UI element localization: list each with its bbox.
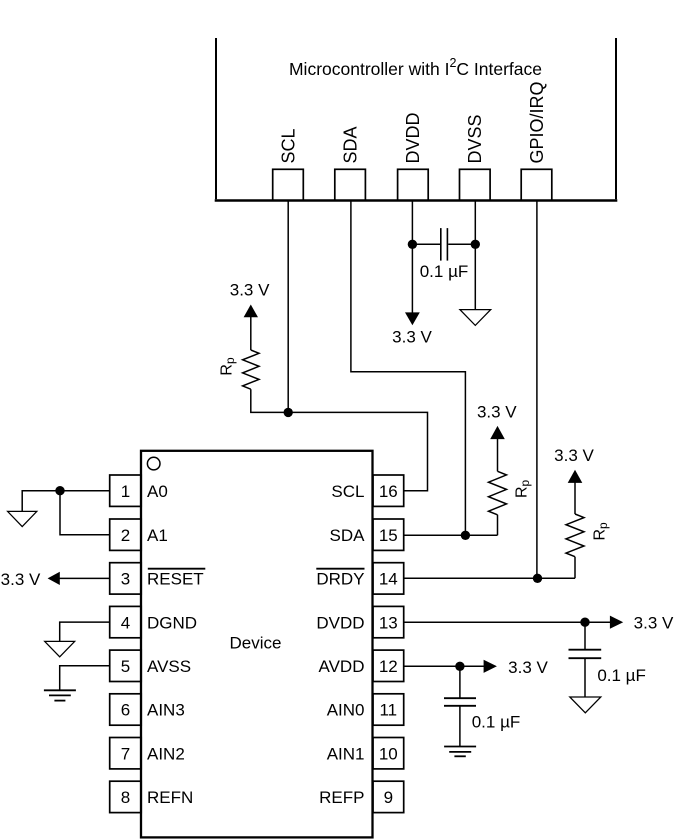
pin box 13 (device) (373, 606, 404, 637)
svg-text:3.3 V: 3.3 V (554, 446, 594, 465)
overline RESET (148, 568, 206, 570)
power arrow 3.3V (DRDY pull-up) (568, 470, 583, 483)
device pin-1 indicator circle (147, 457, 160, 470)
resistor R_p (DRDY pull-up) (566, 482, 584, 556)
resistor R_p (SDA pull-up) (489, 439, 507, 515)
pin box 14 (device) (373, 563, 404, 594)
power arrow 3.3V (DVDD pin13, right) (610, 616, 623, 629)
wire AVDD pin12 to capacitor C3 (459, 666, 461, 697)
pin box 10 (device) (373, 738, 404, 769)
svg-text:AVDD: AVDD (319, 657, 365, 676)
power arrow 3.3V (DVDD, down) (405, 312, 420, 325)
svg-text:A0: A0 (147, 482, 168, 501)
pin box DVSS (microcontroller) (460, 169, 491, 200)
pin box 16 (device) (373, 475, 404, 506)
svg-text:Device: Device (230, 634, 282, 653)
svg-text:3.3 V: 3.3 V (1, 570, 41, 589)
svg-text:3.3 V: 3.3 V (392, 328, 432, 347)
svg-text:SCL: SCL (331, 482, 364, 501)
pin box 8 (device) (110, 781, 142, 812)
pin box 6 (device) (110, 694, 142, 725)
svg-text:DVSS: DVSS (465, 114, 485, 163)
svg-text:5: 5 (121, 657, 130, 676)
svg-text:Microcontroller with I2C Inter: Microcontroller with I2C Interface (289, 56, 542, 79)
ground (C3, earth) (444, 747, 476, 757)
node SDA junction (461, 531, 470, 540)
svg-text:10: 10 (379, 744, 398, 763)
wire DGND (pin 4) to ground (60, 622, 110, 641)
svg-text:11: 11 (379, 701, 397, 720)
wire capacitor C3 to ground (459, 706, 461, 746)
svg-text:GPIO/IRQ: GPIO/IRQ (527, 81, 547, 163)
svg-text:3: 3 (121, 570, 130, 589)
svg-text:12: 12 (379, 657, 398, 676)
wire device pin 14 horizontal (404, 557, 575, 579)
wire DVDD vertical from microcontroller (411, 201, 413, 314)
wire A0 (pin 1) to ground (22, 491, 110, 512)
node DVDD junction (408, 240, 417, 249)
node SCL junction (284, 408, 293, 417)
pin box 7 (device) (110, 738, 142, 769)
wire DVDD (pin 13) to 3.3V (404, 621, 610, 623)
power arrow 3.3V (RESET, left) (48, 572, 60, 585)
microcontroller U1 body (215, 38, 618, 201)
pin box 11 (device) (373, 694, 404, 725)
svg-text:1: 1 (121, 482, 130, 501)
wire DVDD pin13 to capacitor C2 (584, 622, 586, 649)
wire DVDD to capacitor C1 (412, 243, 440, 245)
svg-text:DGND: DGND (147, 613, 197, 632)
wire capacitor C1 to DVSS (448, 243, 475, 245)
power arrow 3.3V (SDA pull-up) (490, 426, 505, 439)
svg-text:7: 7 (121, 744, 130, 763)
ground (DVSS, open triangle) (460, 310, 491, 326)
wire SCL horizontal to device pin 16 (251, 389, 428, 491)
pin box 4 (device) (110, 606, 142, 637)
svg-text:3.3 V: 3.3 V (508, 658, 548, 677)
svg-text:9: 9 (384, 788, 393, 807)
svg-text:SDA: SDA (330, 526, 366, 545)
wire DVSS vertical from microcontroller (474, 201, 476, 310)
svg-text:REFN: REFN (147, 788, 193, 807)
capacitor C3 0.1uF (AVDD bypass) (444, 698, 476, 706)
node DVSS junction (471, 240, 480, 249)
svg-text:AVSS: AVSS (147, 657, 191, 676)
svg-text:3.3 V: 3.3 V (477, 402, 517, 421)
svg-text:2: 2 (121, 526, 130, 545)
svg-text:15: 15 (379, 526, 398, 545)
svg-text:DVDD: DVDD (316, 613, 364, 632)
pin box SCL (microcontroller) (273, 169, 304, 200)
ground (DGND, open triangle) (45, 641, 75, 656)
svg-text:A1: A1 (147, 526, 168, 545)
power arrow 3.3V (SCL pull-up) (244, 305, 258, 318)
wire capacitor C2 to ground (584, 659, 586, 698)
wire A1 (pin 2) branch (60, 491, 110, 535)
pin box 15 (device) (373, 519, 404, 550)
svg-text:8: 8 (121, 788, 130, 807)
wire AVDD (pin 12) to 3.3V (404, 665, 484, 667)
ground (AVSS, earth) (44, 690, 76, 700)
capacitor C2 0.1uF (DVDD bypass) (569, 650, 602, 659)
wire SDA from microcontroller to device pin 15 (351, 201, 466, 536)
svg-text:3.3 V: 3.3 V (634, 614, 674, 633)
power arrow 3.3V (AVDD pin12, right) (484, 660, 497, 673)
node DVDD pin13 junction (580, 618, 589, 627)
capacitor C1 0.1uF (DVDD-DVSS) (441, 228, 448, 261)
svg-text:0.1 µF: 0.1 µF (420, 262, 469, 281)
pin box DVDD (microcontroller) (398, 169, 429, 200)
node A0/A1 junction (55, 486, 64, 495)
svg-text:3.3 V: 3.3 V (230, 281, 270, 300)
pin box 12 (device) (373, 650, 404, 681)
node AVDD pin12 junction (455, 662, 464, 671)
svg-text:14: 14 (379, 570, 398, 589)
pin box SDA (microcontroller) (335, 169, 366, 200)
svg-text:RESET: RESET (147, 570, 204, 589)
svg-text:6: 6 (121, 701, 130, 720)
wire AVSS (pin 5) to ground (60, 666, 110, 691)
wire RESET (pin 3) to 3.3V (60, 577, 110, 579)
svg-text:13: 13 (379, 613, 398, 632)
pin box 3 (device) (110, 563, 142, 594)
device U2 body (141, 451, 373, 838)
svg-text:AIN1: AIN1 (327, 744, 365, 763)
svg-text:AIN0: AIN0 (327, 701, 365, 720)
wire device pin 15 horizontal (404, 515, 498, 536)
svg-text:AIN3: AIN3 (147, 701, 185, 720)
pin box 1 (device) (110, 475, 142, 506)
svg-text:4: 4 (121, 613, 130, 632)
node DRDY junction (533, 574, 542, 583)
pin box 5 (device) (110, 650, 142, 681)
svg-text:REFP: REFP (319, 788, 364, 807)
svg-text:SDA: SDA (340, 126, 360, 163)
ground (C2, open triangle) (570, 697, 601, 713)
resistor R_p (SCL pull-up) (243, 317, 259, 389)
wire SCL vertical from microcontroller (287, 201, 289, 413)
overline DRDY (316, 568, 364, 570)
wire GPIO/IRQ vertical from microcontroller (536, 201, 538, 579)
pin box 9 (device) (373, 781, 404, 812)
svg-text:AIN2: AIN2 (147, 744, 185, 763)
svg-text:16: 16 (379, 482, 398, 501)
ground (A0/A1, open triangle) (8, 511, 37, 526)
svg-text:0.1 µF: 0.1 µF (472, 713, 521, 732)
svg-text:DVDD: DVDD (403, 112, 423, 163)
svg-text:SCL: SCL (278, 128, 298, 163)
svg-text:DRDY: DRDY (316, 570, 364, 589)
pin box GPIO/IRQ (microcontroller) (521, 169, 552, 200)
pin box 2 (device) (110, 519, 142, 550)
svg-text:0.1 µF: 0.1 µF (597, 666, 646, 685)
